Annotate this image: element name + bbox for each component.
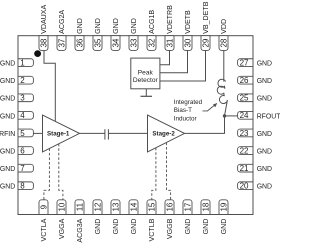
svg-text:GND: GND [94,18,102,34]
svg-text:VGGB: VGGB [166,218,174,239]
svg-text:20: 20 [240,182,249,191]
svg-text:VGGA: VGGA [58,218,66,239]
svg-text:RFIN: RFIN [0,131,15,138]
wire pin 31 VDETRB to peak detector [160,50,170,64]
pin 4 (GND) left [0,111,33,120]
svg-text:19: 19 [219,202,228,211]
svg-text:GND: GND [112,219,120,235]
svg-text:GND: GND [94,219,102,235]
svg-text:GND: GND [0,148,15,155]
svg-text:ACG3A: ACG3A [76,218,84,242]
pin 33 (GND) top [129,18,138,50]
wire Stage-1 output to capacitor [80,132,105,134]
svg-text:22: 22 [240,146,249,155]
svg-text:33: 33 [129,38,138,47]
svg-text:VDETRB: VDETRB [166,5,174,34]
ground under peak detector [141,89,153,97]
pin 38 (VDAUXA) top [39,4,48,50]
wire pin 29 VB_DETB to peak detector [160,50,206,81]
svg-text:Bias-T: Bias-T [174,107,192,114]
pin 9 (VCTLA) bottom [39,200,48,242]
dashed control line Stage-1 to pin 9 VCTLA [44,148,50,199]
svg-text:18: 18 [201,202,210,211]
svg-text:10: 10 [57,202,66,211]
pin 29 (VB_DETB) top [201,1,210,50]
svg-text:17: 17 [183,202,192,211]
pin 23 (GND) right [238,129,272,138]
svg-text:ACG2A: ACG2A [58,10,66,34]
svg-text:Stage-1: Stage-1 [47,130,70,137]
svg-text:16: 16 [165,202,174,211]
svg-text:GND: GND [0,166,15,173]
svg-text:GND: GND [0,113,15,120]
svg-text:38: 38 [39,38,48,47]
pin 21 (GND) right [238,164,272,173]
svg-text:GND: GND [257,131,272,138]
svg-text:GND: GND [130,219,138,235]
dashed control line Stage-2 to pin 15 VCTLB [152,148,156,200]
wire capacitor to Stage-2 input [108,132,147,134]
svg-text:GND: GND [0,184,15,191]
svg-text:1: 1 [20,58,25,67]
svg-text:RFOUT: RFOUT [257,113,280,120]
svg-text:6: 6 [20,146,25,155]
svg-text:GND: GND [184,219,192,235]
svg-text:15: 15 [147,202,156,211]
svg-text:GND: GND [0,78,15,85]
pin 5 (RFIN) left [0,129,33,138]
pin 24 (RFOUT) right [238,111,282,120]
dashed control line Stage-1 to pin 10 VGGA [59,144,63,200]
svg-text:21: 21 [240,164,249,173]
svg-text:GND: GND [257,61,272,68]
pin 34 (GND) top [111,18,120,50]
svg-text:VCTLB: VCTLB [148,218,156,241]
wire pin 30 VDETB to peak detector [160,50,188,72]
pin 6 (GND) left [0,146,33,155]
svg-text:GND: GND [257,96,272,103]
svg-text:VB_DETB: VB_DETB [202,1,210,34]
pin 10 (VGGA) bottom [57,200,66,239]
svg-text:29: 29 [201,38,210,47]
svg-text:GND: GND [130,18,138,34]
annotation: Integrated Bias-T Inductor [174,99,203,122]
pin 22 (GND) right [238,146,272,155]
amplifier Stage-2 [148,115,185,152]
svg-text:36: 36 [75,38,84,47]
chip body U1 [18,36,253,215]
svg-text:VDD: VDD [220,19,228,34]
svg-text:GND: GND [220,219,228,235]
svg-text:Inductor: Inductor [174,115,197,122]
pin 35 (GND) top [93,18,102,50]
svg-text:12: 12 [93,202,102,211]
pin 32 (ACG1B) top [147,10,156,51]
wire pin 28 VDD down to inductor [223,50,225,81]
svg-text:Peak: Peak [138,69,154,76]
svg-text:GND: GND [0,61,15,68]
svg-text:GND: GND [112,18,120,34]
svg-text:7: 7 [20,164,25,173]
svg-text:4: 4 [20,111,25,120]
svg-text:GND: GND [76,18,84,34]
svg-text:14: 14 [129,202,138,211]
annotation leader arrow to inductor [203,103,218,111]
pin 18 (GND) bottom [201,200,210,235]
pin 28 (VDD) top [219,19,228,50]
svg-text:3: 3 [20,94,25,103]
pin 36 (GND) top [75,18,84,50]
inductor L1 (bias-T coil) [217,79,227,116]
svg-text:GND: GND [0,96,15,103]
svg-text:35: 35 [93,38,102,47]
wire RFIN pin5 to Stage-1 input [33,132,42,134]
svg-text:25: 25 [240,94,249,103]
svg-text:VDETB: VDETB [184,10,192,34]
peak detector block [131,58,160,89]
capacitor C1 (interstage) [105,129,109,139]
svg-text:VDAUXA: VDAUXA [40,4,48,33]
pin 11 (ACG3A) bottom [75,200,84,243]
svg-text:11: 11 [75,202,84,211]
svg-text:28: 28 [219,38,228,47]
pin 8 (GND) left [0,182,33,191]
svg-text:GND: GND [257,166,272,173]
pin 26 (GND) right [238,76,272,85]
svg-text:32: 32 [147,38,156,47]
svg-text:5: 5 [20,129,25,138]
svg-text:23: 23 [240,129,249,138]
pin 13 (GND) bottom [111,200,120,235]
svg-text:GND: GND [257,148,272,155]
svg-text:Stage-2: Stage-2 [152,130,175,137]
svg-text:GND: GND [202,219,210,235]
dashed control line Stage-2 to pin 16 VGGB [167,143,171,200]
pin 3 (GND) left [0,94,33,103]
wire pin 38 VDAUXA to Stage-1 top [44,50,55,121]
pin 7 (GND) left [0,164,33,173]
svg-text:31: 31 [165,38,174,47]
svg-text:2: 2 [20,76,25,85]
amplifier Stage-1 [43,115,80,152]
pin 16 (VGGB) bottom [165,200,174,239]
pin 1 indicator dot [34,50,41,57]
pin 37 (ACG2A) top [57,10,66,51]
svg-text:VCTLA: VCTLA [40,218,48,241]
pin 25 (GND) right [238,94,272,103]
svg-text:ACG1B: ACG1B [148,10,156,34]
svg-text:37: 37 [57,38,66,47]
pin 1 (GND) left [0,58,33,67]
pin 17 (GND) bottom [183,200,192,235]
svg-text:Detector: Detector [133,77,159,84]
svg-text:Integrated: Integrated [174,99,203,106]
svg-text:24: 24 [240,111,249,120]
svg-text:26: 26 [240,76,249,85]
svg-text:GND: GND [257,184,272,191]
svg-text:34: 34 [111,38,120,47]
svg-text:27: 27 [240,58,249,67]
pin 27 (GND) right [238,58,272,67]
svg-text:13: 13 [111,202,120,211]
pin 15 (VCTLB) bottom [147,200,156,242]
pin 31 (VDETRB) top [165,5,174,51]
pin 14 (GND) bottom [129,200,138,235]
pin 30 (VDETB) top [183,10,192,50]
pin 20 (GND) right [238,182,272,191]
wire node to pin 24 RFOUT [225,115,238,117]
svg-text:8: 8 [20,182,25,191]
svg-text:9: 9 [39,204,48,209]
pin 19 (GND) bottom [219,200,228,235]
svg-text:30: 30 [183,38,192,47]
node RFOUT junction dot [223,114,226,117]
wire Stage-2 output to RFOUT node [185,116,225,133]
svg-text:GND: GND [257,78,272,85]
pin 2 (GND) left [0,76,33,85]
pin 12 (GND) bottom [93,200,102,235]
